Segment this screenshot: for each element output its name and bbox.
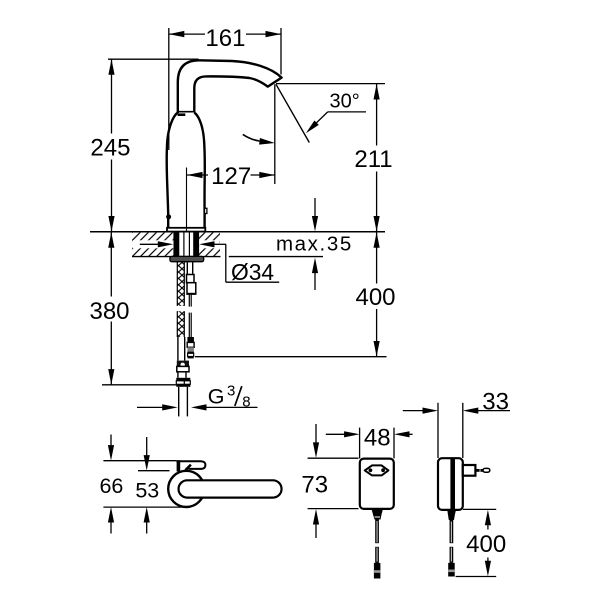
dim max.35 arrow down (314, 198, 316, 217)
O34 leader (225, 244, 227, 282)
hose collar (177, 361, 189, 367)
dim 73 ext bottom (308, 508, 359, 510)
svg-text:53: 53 (135, 479, 159, 503)
lever bar (177, 460, 181, 471)
dim 245 line (111, 59, 113, 133)
dim 400 line (376, 232, 378, 283)
dim 127 line (187, 174, 208, 176)
dim G3/8 line right (191, 404, 207, 410)
dim 127 ext line right (274, 84, 276, 184)
dim 53 ext top (138, 470, 170, 472)
dim 245 arrow down (108, 216, 114, 232)
dim 33 line left (403, 410, 424, 412)
adapter front body (360, 459, 394, 509)
svg-text:400: 400 (355, 284, 395, 311)
30 deg underline (328, 111, 366, 113)
svg-text:380: 380 (89, 298, 129, 325)
deck hatch right (199, 233, 220, 256)
dim 73 ext top (308, 457, 359, 459)
rod coupler lower (187, 283, 196, 294)
top view base circle (168, 471, 204, 507)
dim 73 arrow up (313, 509, 319, 525)
dim 161 ext line right (280, 28, 282, 75)
svg-text:211: 211 (354, 146, 392, 173)
deck bottom line (132, 256, 221, 258)
dim 400b arrow down (487, 558, 489, 563)
plug pin tip (483, 468, 490, 472)
dim 33 ext lines (437, 403, 439, 458)
sensor cable upper (188, 294, 190, 307)
spout seam (178, 111, 195, 113)
G3/8 pipe (178, 387, 180, 417)
svg-text:400: 400 (466, 531, 506, 558)
adapter front strain relief (372, 509, 384, 520)
detail dot left (166, 214, 171, 219)
dim 380 ext line bottom (102, 384, 178, 386)
dim O34 arrow right (199, 241, 215, 247)
dim 127 arrow left (187, 172, 203, 178)
faucet spout (178, 60, 282, 113)
dim 48 line left (326, 433, 346, 435)
dim max.35 arrow up (312, 258, 318, 274)
dim 66/53 ext bottom (103, 506, 187, 508)
dim 400b ext top (463, 508, 496, 510)
dim 380 line (110, 232, 112, 296)
dim 53 arrow up (144, 507, 150, 523)
washer (170, 256, 204, 261)
braided hose lower (177, 311, 184, 337)
svg-text:66: 66 (99, 474, 123, 498)
dim 73 arrow down (315, 424, 317, 443)
svg-text:48: 48 (364, 425, 391, 452)
30 deg arrow head (306, 121, 319, 134)
deck hatch left (132, 233, 175, 256)
adapter side seam stripe (450, 458, 455, 510)
adapter side cable connector (448, 563, 455, 577)
adapter side strain relief (447, 510, 456, 520)
mounting rod (186, 262, 188, 275)
base flange (167, 228, 205, 232)
sensor cable lower (188, 313, 190, 338)
svg-text:3: 3 (227, 382, 235, 399)
svg-text:30°: 30° (330, 90, 360, 112)
water stream line (276, 84, 309, 142)
dim 400b arrow up (485, 510, 491, 526)
30 deg leader (309, 112, 328, 131)
dim 161 line (169, 33, 205, 35)
dim 211 arrow down (374, 216, 380, 232)
dim 127 arrow right (259, 172, 275, 178)
hose lower tube (177, 337, 179, 361)
dim G3/8 line left (137, 406, 164, 408)
dim 66 ext top (103, 460, 176, 462)
shank thread left (173, 233, 179, 257)
dim 66 arrow up (108, 507, 114, 523)
dim 161 ext line left (168, 28, 170, 150)
dim 400 arrow down (374, 341, 380, 357)
rod coupler (187, 275, 195, 283)
dim 245 ext line top (108, 58, 199, 60)
hose neck (177, 372, 179, 378)
braided hose upper (177, 262, 184, 306)
faucet body right edge (194, 113, 204, 228)
cable plug connector (187, 337, 194, 342)
dim 66 arrow down (110, 435, 112, 447)
dim 211 arrow up (374, 84, 380, 100)
dim 400 arrow up (374, 232, 380, 248)
dim O34 arrow left (140, 243, 159, 245)
svg-text:8: 8 (242, 394, 250, 411)
shank inner lines (183, 233, 185, 257)
sensor tab right (205, 208, 207, 213)
svg-text:245: 245 (90, 135, 130, 162)
dim 48 ext lines (359, 428, 361, 459)
adapter front cable (375, 520, 379, 544)
deck top line (90, 231, 385, 233)
flow arrow head (259, 138, 275, 145)
svg-text:33: 33 (482, 388, 509, 415)
dim 53 arrow down (146, 437, 148, 457)
center axis ext line (186, 168, 188, 232)
dim 33 line right (463, 408, 479, 414)
lever tick (185, 465, 191, 471)
dim 161 arrow right (266, 31, 282, 37)
dim 161 arrow left (169, 31, 185, 37)
dim 380 arrow up (108, 232, 114, 248)
dim 245 arrow up (108, 59, 114, 74)
adapter front cable connector (374, 563, 381, 579)
spout seam tick (178, 113, 186, 116)
dim 48 line right (394, 431, 410, 437)
dim 400 ext line bottom (195, 356, 387, 358)
faucet body left edge (167, 113, 178, 228)
hatch clearance band (133, 240, 174, 248)
svg-text:161: 161 (205, 25, 245, 52)
dim 211 line (376, 84, 378, 146)
dim 400b ext bottom (456, 576, 497, 578)
euro socket (365, 465, 389, 475)
top view lever (176, 461, 205, 469)
hose nut (176, 378, 190, 381)
svg-text:max.35: max.35 (276, 233, 353, 256)
adapter side cable (450, 520, 454, 543)
top view spout (179, 480, 282, 497)
svg-text:127: 127 (211, 163, 251, 190)
svg-text:73: 73 (301, 472, 328, 499)
shank thread right (193, 233, 199, 257)
flow arrow curve (243, 134, 260, 141)
plug pin dashes (476, 469, 479, 472)
svg-text:G: G (208, 384, 225, 408)
dim 380 arrow down (108, 369, 114, 385)
svg-text:Ø34: Ø34 (231, 259, 274, 285)
adapter side body (438, 458, 463, 510)
dim 211 ext line top (276, 83, 385, 85)
plug base (463, 465, 476, 476)
